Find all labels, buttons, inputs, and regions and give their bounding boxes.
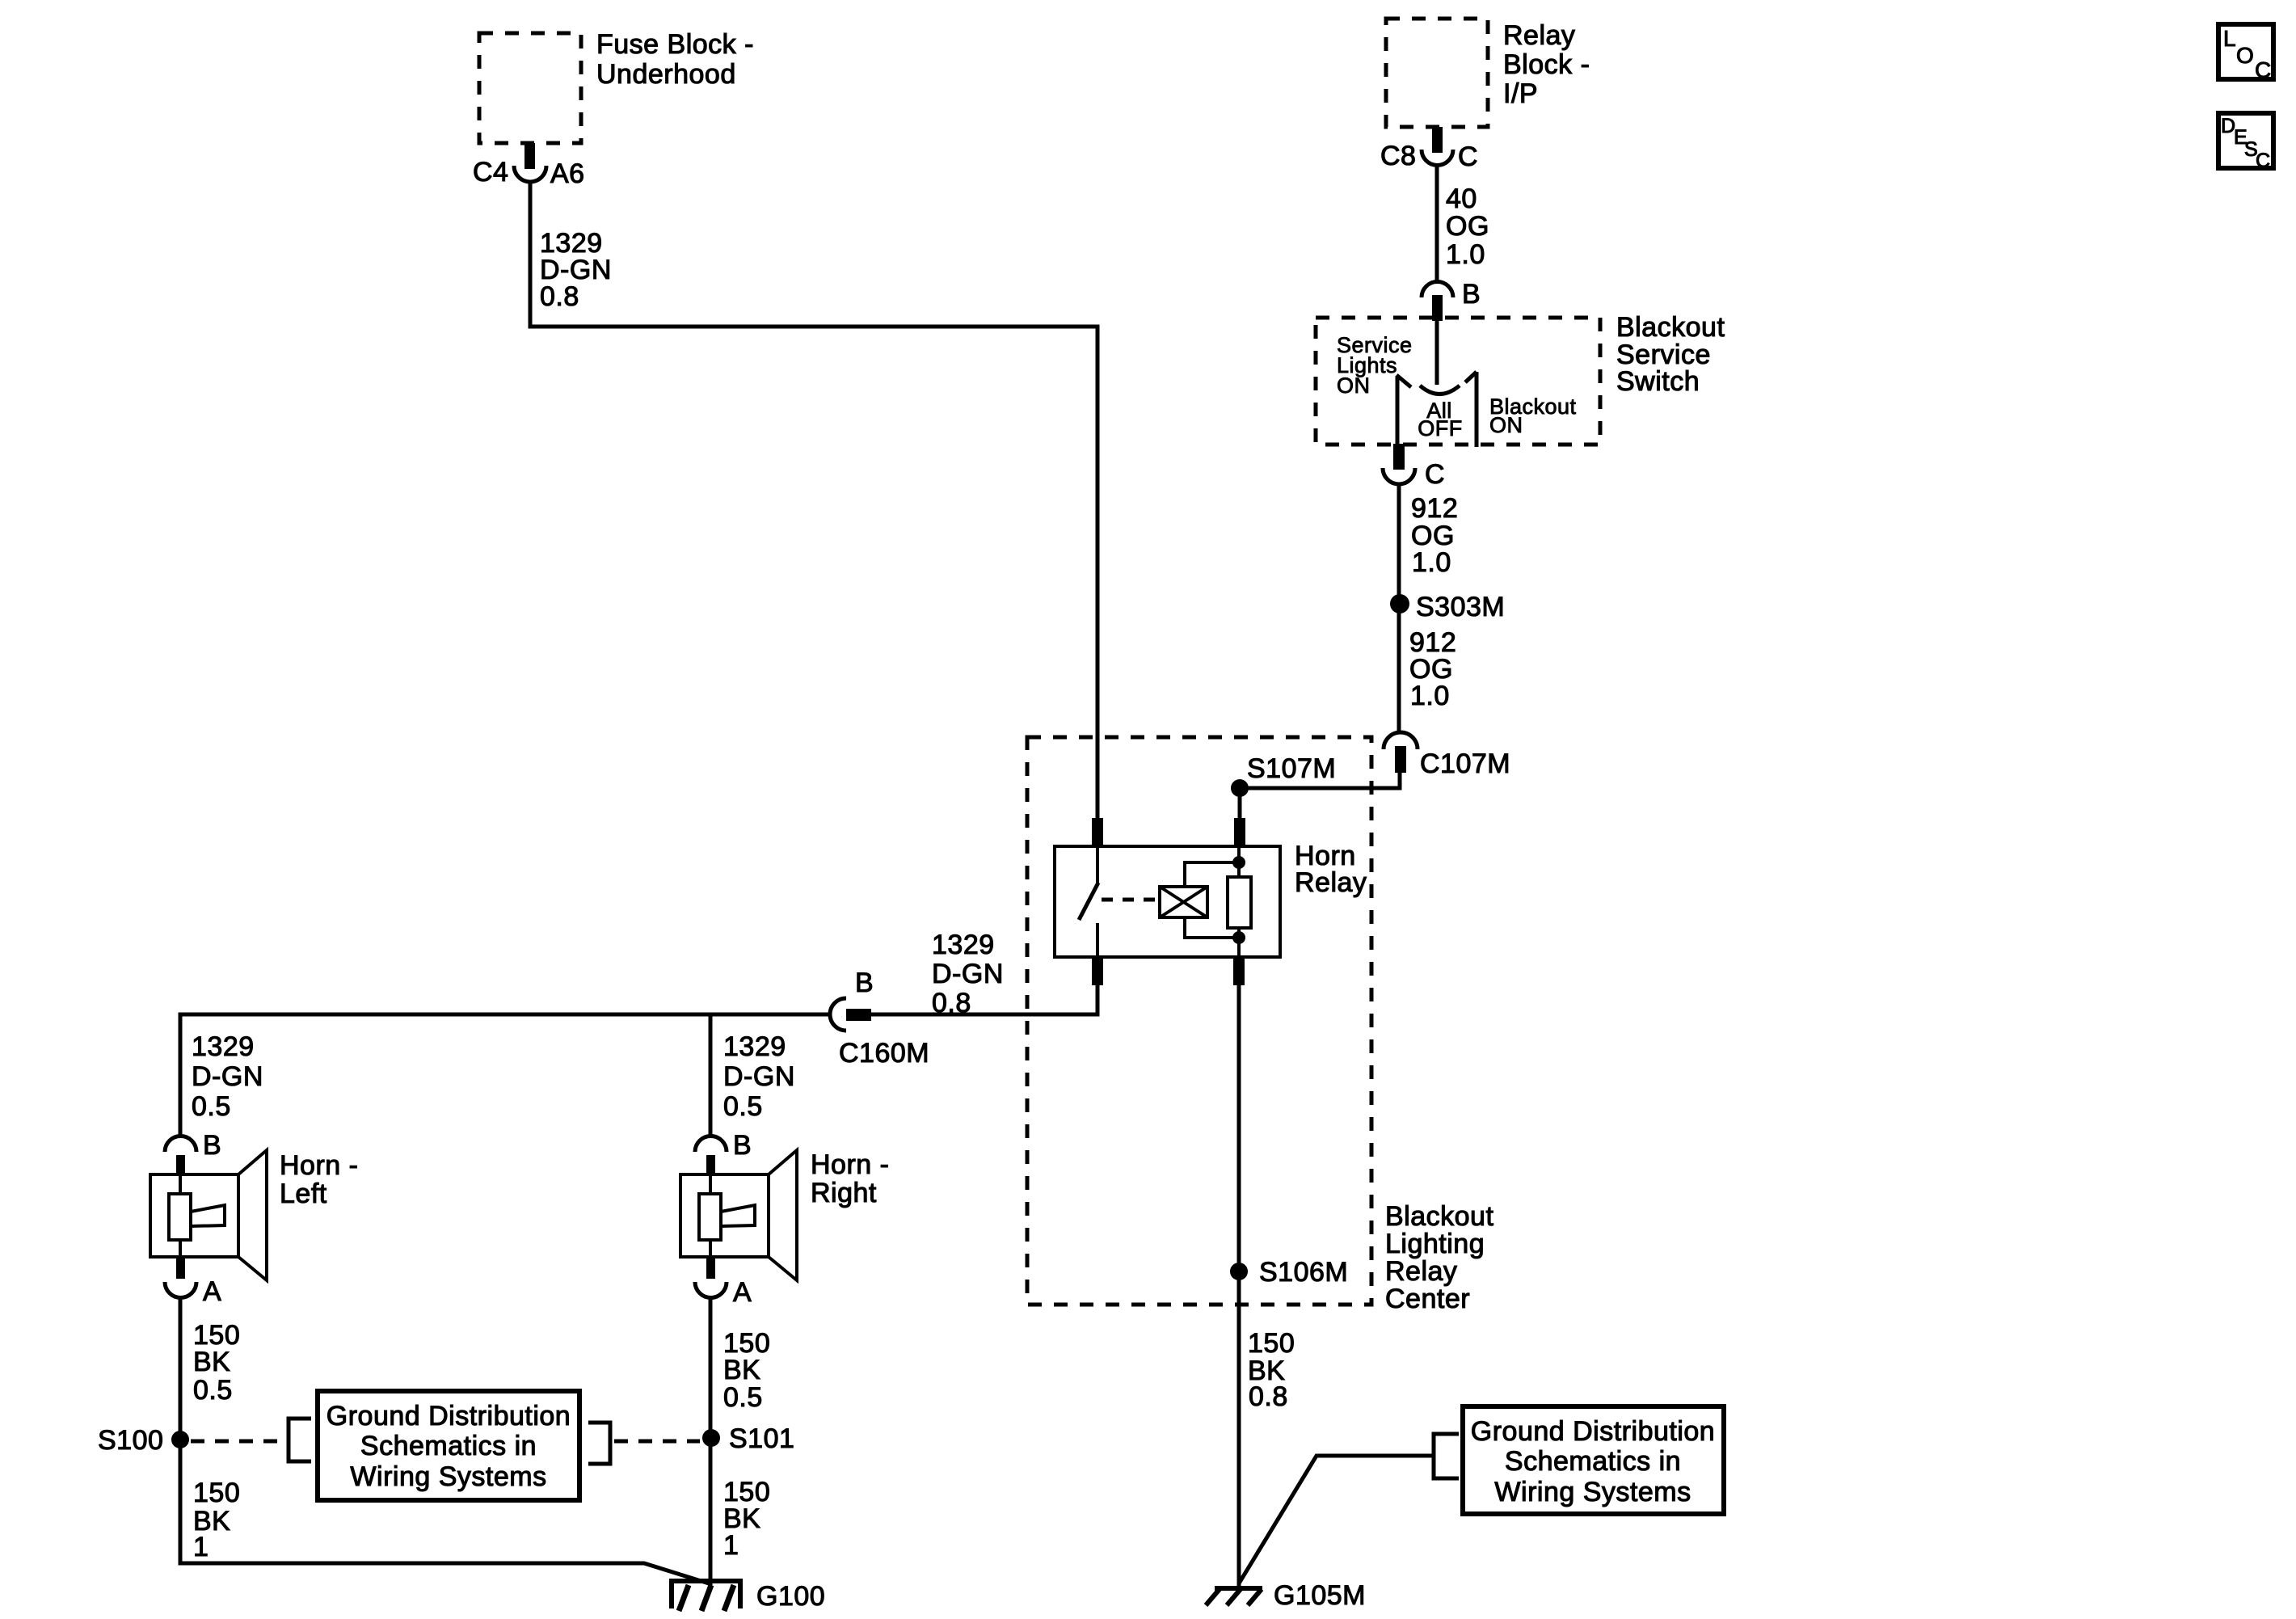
label C160M — [839, 1038, 929, 1069]
switch pole contact arc — [1420, 386, 1460, 394]
label Service Lights ON — [1337, 333, 1413, 398]
svg-text:Horn -: Horn - — [811, 1149, 889, 1180]
wire label 1329 D-GN 0.8 at C160M — [932, 930, 1004, 1018]
svg-text:Left: Left — [280, 1178, 327, 1209]
splice S106M — [1230, 1263, 1248, 1280]
svg-text:L: L — [2223, 26, 2236, 51]
wire label 1329 D-GN 0.5 right — [723, 1031, 795, 1122]
label Fuse Block - Underhood — [596, 29, 754, 90]
LOC icon box — [2218, 24, 2273, 82]
horn left connector A socket — [165, 1282, 196, 1298]
wire horn left to S100 and bottom — [180, 1297, 709, 1583]
label B — [1462, 279, 1481, 310]
svg-text:Relay: Relay — [1385, 1256, 1457, 1287]
horn relay box — [1055, 846, 1280, 957]
svg-text:1.0: 1.0 — [1412, 547, 1451, 578]
wire label 912 OG 1.0 upper — [1411, 493, 1458, 578]
label Horn Relay — [1295, 841, 1367, 898]
svg-text:Relay: Relay — [1503, 20, 1575, 51]
svg-text:Blackout: Blackout — [1616, 312, 1725, 343]
svg-text:I/P: I/P — [1503, 78, 1538, 109]
svg-text:0.5: 0.5 — [193, 1375, 233, 1406]
svg-text:Schematics in: Schematics in — [360, 1431, 537, 1461]
relay switch blade — [1079, 883, 1098, 920]
label All OFF — [1418, 398, 1463, 441]
svg-text:C160M: C160M — [839, 1038, 929, 1069]
svg-text:0.5: 0.5 — [192, 1091, 231, 1122]
dashed wire bracket to S101 — [614, 1440, 700, 1444]
horn left connector B pin — [176, 1155, 185, 1176]
wire label 150 BK 0.5 right — [723, 1328, 770, 1413]
svg-text:0.8: 0.8 — [1249, 1381, 1288, 1412]
svg-text:C4: C4 — [473, 157, 508, 188]
svg-text:A6: A6 — [550, 158, 585, 189]
svg-text:S107M: S107M — [1247, 753, 1336, 784]
svg-text:Underhood: Underhood — [596, 59, 736, 90]
horn left driver — [169, 1194, 191, 1240]
svg-text:0.8: 0.8 — [540, 281, 579, 312]
horn right connector B pin — [706, 1155, 715, 1176]
svg-text:Schematics in: Schematics in — [1505, 1446, 1681, 1477]
svg-text:Lighting: Lighting — [1385, 1229, 1485, 1259]
wire branch to right horn — [709, 1014, 713, 1136]
label Relay Block - I/P — [1503, 20, 1590, 109]
relay pin top-left — [1092, 818, 1103, 845]
label G105M — [1274, 1580, 1366, 1611]
label Blackout ON — [1489, 394, 1577, 437]
switch position Service Lights ON contact — [1397, 375, 1411, 446]
svg-text:Blackout: Blackout — [1385, 1201, 1493, 1232]
svg-text:C: C — [1458, 141, 1478, 172]
svg-text:0.5: 0.5 — [723, 1382, 763, 1413]
horn right trumpet — [721, 1205, 755, 1226]
svg-text:C: C — [1425, 459, 1445, 490]
wire label 40 OG 1.0 — [1446, 183, 1489, 270]
label S106M — [1259, 1257, 1348, 1288]
svg-text:D-GN: D-GN — [723, 1061, 795, 1092]
label S101 — [729, 1423, 794, 1454]
label Blackout Service Switch — [1616, 312, 1725, 397]
label A horn left — [203, 1276, 221, 1307]
svg-text:Wiring Systems: Wiring Systems — [1494, 1477, 1691, 1507]
relay armature dashed link — [1102, 898, 1158, 902]
relay junction dot bottom — [1232, 931, 1245, 944]
connector C160M pin — [846, 1009, 871, 1021]
splice S303M — [1390, 594, 1409, 613]
connector C8/C socket — [1422, 150, 1453, 166]
svg-text:BK: BK — [193, 1347, 230, 1377]
splice S101 — [702, 1429, 720, 1447]
svg-text:B: B — [1462, 279, 1481, 310]
svg-text:150: 150 — [193, 1478, 240, 1508]
relay pin bottom-right — [1233, 959, 1245, 985]
horn left connector B arc — [165, 1136, 196, 1152]
svg-text:Ground Distribution: Ground Distribution — [326, 1401, 571, 1431]
wire bracket to G105M — [1239, 1456, 1434, 1583]
svg-text:Switch: Switch — [1616, 366, 1700, 397]
horn right connector A pin — [706, 1258, 715, 1279]
label Horn - Right — [811, 1149, 889, 1208]
ground symbol G100 — [669, 1581, 743, 1611]
svg-text:0.5: 0.5 — [723, 1091, 763, 1122]
label S100 — [98, 1425, 163, 1456]
label C — [1458, 141, 1478, 172]
label G100 — [756, 1581, 825, 1612]
svg-text:Ground Distribution: Ground Distribution — [1471, 1416, 1715, 1447]
label Horn - Left — [280, 1150, 358, 1209]
svg-text:S100: S100 — [98, 1425, 163, 1456]
wire C107M to S107M — [1240, 773, 1400, 788]
wire label 912 OG 1.0 lower — [1409, 627, 1456, 711]
relay coil loop wires — [1185, 862, 1239, 938]
svg-text:G100: G100 — [756, 1581, 825, 1612]
relay internal wire bottom — [1237, 928, 1241, 959]
svg-text:Horn -: Horn - — [280, 1150, 358, 1181]
label B at C160M — [855, 968, 874, 998]
wire label 150 BK 0.5 left — [193, 1320, 240, 1406]
horn right connector A socket — [695, 1282, 727, 1298]
ground distribution box right bracket — [588, 1423, 610, 1464]
svg-text:C: C — [2255, 57, 2272, 82]
connector B pin — [1432, 295, 1443, 321]
svg-text:S303M: S303M — [1416, 592, 1505, 622]
svg-text:Wiring Systems: Wiring Systems — [350, 1461, 546, 1492]
blackout service switch dashed box — [1316, 318, 1600, 445]
wire label 1329 D-GN 0.5 left — [192, 1031, 263, 1122]
label Ground Distribution Schematics in Wiring Systems right — [1471, 1416, 1715, 1507]
wire C8 to connector B — [1435, 165, 1439, 281]
svg-text:Relay: Relay — [1295, 867, 1367, 898]
svg-text:Right: Right — [811, 1178, 877, 1208]
svg-text:Block -: Block - — [1503, 49, 1590, 80]
svg-text:1: 1 — [723, 1530, 739, 1561]
svg-text:A: A — [203, 1276, 221, 1307]
horn right cone — [769, 1150, 797, 1280]
svg-text:D-GN: D-GN — [932, 959, 1004, 989]
wire relay bottom-right pin to G105M — [1237, 985, 1241, 1586]
svg-text:S101: S101 — [729, 1423, 794, 1454]
relay internal wire top — [1237, 845, 1241, 877]
horn right connector B arc — [695, 1136, 727, 1152]
label C below switch — [1425, 459, 1445, 490]
ground distribution schematics box left — [318, 1391, 579, 1500]
svg-text:B: B — [203, 1130, 221, 1161]
relay resistor — [1228, 877, 1251, 928]
svg-text:Center: Center — [1385, 1284, 1470, 1314]
wire C4 to relay top-left pin — [530, 182, 1097, 819]
svg-text:A: A — [733, 1277, 752, 1308]
svg-text:912: 912 — [1411, 493, 1458, 524]
wire relay bottom-left pin to C160M — [871, 985, 1097, 1014]
connector C4/A6 socket — [514, 166, 546, 182]
svg-text:C: C — [2256, 150, 2271, 172]
splice S107M — [1231, 779, 1249, 797]
connector C4/A6 pin — [524, 143, 535, 169]
label B horn right — [733, 1130, 752, 1161]
connector C107M pin — [1395, 746, 1406, 773]
svg-text:S106M: S106M — [1259, 1257, 1348, 1288]
svg-text:B: B — [855, 968, 874, 998]
relay block I/P dashed box — [1386, 19, 1488, 127]
horn right body box — [680, 1174, 769, 1257]
svg-text:Fuse Block -: Fuse Block - — [596, 29, 754, 60]
switch pole wire — [1435, 321, 1439, 385]
connector C160M socket — [830, 998, 846, 1031]
svg-text:B: B — [733, 1130, 752, 1161]
label B horn left — [203, 1130, 221, 1161]
svg-text:C107M: C107M — [1420, 748, 1510, 779]
horn left trumpet — [191, 1205, 225, 1226]
horn left internal wire — [179, 1176, 182, 1258]
relay switch contact — [1096, 845, 1099, 959]
ground distribution schematics box right — [1463, 1406, 1724, 1514]
label S303M — [1416, 592, 1505, 622]
svg-text:O: O — [2236, 43, 2254, 68]
svg-text:1.0: 1.0 — [1410, 681, 1450, 711]
label C4 — [473, 157, 508, 188]
horn right driver — [699, 1194, 721, 1240]
splice S100 — [171, 1431, 189, 1448]
label C107M — [1420, 748, 1510, 779]
ground symbol G105M — [1206, 1588, 1262, 1605]
svg-text:BK: BK — [723, 1355, 760, 1385]
wire label 150 BK 0.8 — [1248, 1328, 1295, 1412]
svg-text:150: 150 — [1248, 1328, 1295, 1359]
relay pin bottom-left — [1092, 959, 1103, 985]
horn left connector A pin — [176, 1258, 185, 1279]
label C8 — [1380, 141, 1416, 171]
connector C socket below switch — [1383, 468, 1415, 484]
connector C pin below switch — [1393, 444, 1405, 470]
blackout lighting relay center dashed box — [1027, 737, 1371, 1305]
svg-text:OG: OG — [1446, 211, 1489, 242]
relay coil box — [1160, 887, 1207, 917]
wire C to C107M — [1397, 484, 1401, 732]
svg-text:0.8: 0.8 — [932, 988, 971, 1018]
svg-text:1: 1 — [193, 1532, 209, 1562]
relay junction dot top — [1232, 856, 1245, 869]
svg-text:ON: ON — [1337, 373, 1371, 398]
wire label 150 BK 1 left — [193, 1478, 240, 1562]
label A horn right — [733, 1277, 752, 1308]
wire S107M to relay top-right pin — [1238, 788, 1242, 819]
ground distribution right box bracket — [1434, 1434, 1459, 1478]
svg-text:ON: ON — [1489, 413, 1523, 437]
svg-text:1329: 1329 — [192, 1031, 255, 1062]
horn left cone — [238, 1150, 267, 1280]
connector B arc — [1422, 282, 1453, 298]
label S107M — [1247, 753, 1336, 784]
wire horn right to S101 and G100 — [709, 1297, 713, 1586]
label Blackout Lighting Relay Center — [1385, 1201, 1493, 1314]
svg-text:40: 40 — [1446, 183, 1477, 214]
wire label 1329 D-GN 0.8 — [540, 228, 612, 312]
svg-text:OFF: OFF — [1418, 416, 1463, 441]
wire C160M to horns feed — [180, 1014, 830, 1136]
relay pin top-right — [1234, 818, 1245, 845]
wire label 150 BK 1 right — [723, 1477, 770, 1561]
svg-text:D-GN: D-GN — [192, 1061, 263, 1092]
svg-text:1.0: 1.0 — [1446, 239, 1485, 270]
svg-text:1329: 1329 — [723, 1031, 786, 1062]
connector C8/C pin — [1432, 127, 1443, 153]
switch position Blackout ON contact — [1465, 372, 1477, 447]
svg-text:C8: C8 — [1380, 141, 1416, 171]
dashed wire S100 to ground box bracket — [191, 1440, 285, 1444]
label Ground Distribution Schematics in Wiring Systems left — [326, 1401, 571, 1492]
horn left body box — [150, 1174, 238, 1257]
svg-text:1329: 1329 — [932, 930, 995, 960]
DESC icon box — [2218, 113, 2273, 172]
ground distribution box left bracket — [289, 1419, 311, 1461]
connector C107M arc — [1384, 732, 1418, 749]
label A6 — [550, 158, 585, 189]
horn right internal wire — [709, 1176, 712, 1258]
svg-text:G105M: G105M — [1274, 1580, 1366, 1611]
fuse block underhood dashed box — [479, 33, 581, 143]
